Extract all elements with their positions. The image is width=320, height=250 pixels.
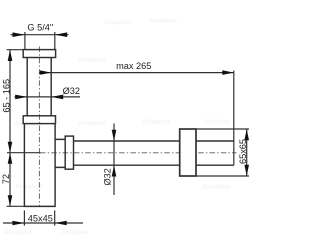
svg-text:45x45: 45x45 bbox=[28, 213, 53, 223]
svg-text:Alcaplast: Alcaplast bbox=[77, 120, 106, 127]
svg-text:max 265: max 265 bbox=[116, 61, 151, 71]
svg-text:Alcaplast: Alcaplast bbox=[202, 184, 231, 191]
svg-text:Alcaplast: Alcaplast bbox=[77, 57, 106, 64]
svg-text:Alcaplast: Alcaplast bbox=[13, 121, 42, 128]
svg-text:G 5/4": G 5/4" bbox=[27, 23, 53, 33]
svg-text:Alcaplast: Alcaplast bbox=[141, 119, 170, 126]
svg-text:Alcaplast: Alcaplast bbox=[103, 19, 132, 26]
svg-text:65x65: 65x65 bbox=[238, 139, 248, 164]
svg-text:Alcaplast: Alcaplast bbox=[148, 18, 177, 25]
svg-text:Alcaplast: Alcaplast bbox=[60, 229, 89, 236]
svg-text:Ø32: Ø32 bbox=[63, 86, 80, 96]
svg-text:72: 72 bbox=[1, 174, 11, 184]
svg-text:Alcaplast: Alcaplast bbox=[14, 184, 43, 191]
svg-text:65 - 165: 65 - 165 bbox=[2, 79, 12, 113]
svg-text:Alcaplast: Alcaplast bbox=[202, 119, 231, 126]
svg-text:Ø32: Ø32 bbox=[102, 168, 112, 185]
svg-text:Alcaplast: Alcaplast bbox=[3, 229, 32, 236]
